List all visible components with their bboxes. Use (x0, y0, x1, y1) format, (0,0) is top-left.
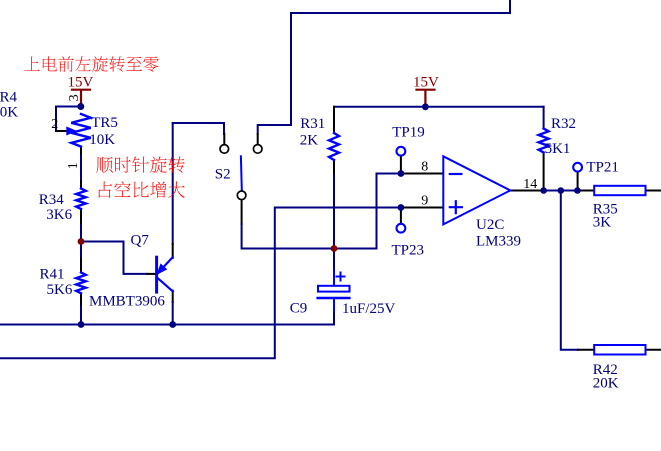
svg-text:TR4: TR4 (0, 90, 17, 106)
testpoint TP19 (397, 147, 406, 156)
resistor R41 (76, 273, 86, 294)
TR5 wiper wire (56, 107, 81, 132)
capacitor C9 plates (318, 286, 350, 292)
S2 pole contact (237, 191, 246, 200)
Q7 emitter with arrow (158, 258, 173, 274)
wire to pin 9 (275, 207, 410, 209)
svg-text:3: 3 (67, 94, 82, 101)
C9 plus sign (337, 273, 345, 281)
power +15V (left) (72, 89, 90, 91)
transistor Q7 base bar (155, 257, 158, 292)
TP19 lead (400, 157, 402, 174)
R42 left lead (578, 349, 594, 351)
op-amp minus (450, 173, 462, 175)
svg-text:10K: 10K (0, 105, 18, 121)
testpoint TP23 (397, 224, 406, 233)
svg-text:20K: 20K (593, 375, 619, 391)
switch S2 arm (240, 156, 243, 190)
C9 top lead (333, 249, 335, 271)
note: clockwise rotation (96, 157, 113, 173)
op-amp output pin 14 (510, 190, 543, 192)
wire 15V rail (334, 106, 544, 108)
wire output to R42 (561, 191, 578, 350)
resistor R35 body (594, 186, 645, 195)
potentiometer TR5 (71, 114, 90, 147)
S2 right contact (253, 145, 262, 154)
wire S2 right contact lead (257, 134, 259, 144)
op-amp U2C triangle (443, 156, 510, 224)
svg-text:15V: 15V (413, 75, 439, 91)
R32 bottom lead (543, 153, 545, 191)
svg-text:U2C: U2C (476, 217, 504, 233)
R42 right lead (646, 349, 661, 351)
wire to Q7 emitter (172, 123, 174, 244)
power +15V (middle) (417, 89, 435, 91)
C9 bottom lead (333, 299, 335, 310)
junction Q7 collector (169, 321, 176, 328)
resistor R31 (329, 133, 339, 160)
TP23 lead (400, 208, 402, 224)
svg-text:TP21: TP21 (586, 159, 619, 175)
svg-text:8: 8 (421, 160, 428, 175)
note: duty cycle increases (99, 182, 113, 198)
R31 bottom lead (333, 160, 335, 175)
svg-text:2: 2 (51, 117, 58, 132)
svg-text:LM339: LM339 (476, 233, 521, 249)
svg-text:2K: 2K (300, 133, 319, 149)
Q7 collector lead (172, 291, 174, 302)
wire top from off-page (258, 0, 510, 134)
junction R41 bottom (78, 321, 85, 328)
svg-text:MMBT3906: MMBT3906 (89, 293, 165, 309)
R32 top lead (543, 107, 545, 129)
junction TR5 top (77, 103, 84, 110)
svg-text:TR5: TR5 (91, 115, 118, 131)
R35 right lead (646, 190, 661, 192)
svg-text:5K6: 5K6 (47, 282, 73, 298)
junction TP23 (398, 204, 405, 211)
TP21 lead (577, 173, 579, 191)
svg-text:R41: R41 (40, 266, 65, 282)
wire S2 left branch (173, 123, 224, 134)
junction C9/R31 (331, 245, 338, 252)
R41 top lead (80, 242, 82, 260)
junction 15V rail (422, 103, 429, 110)
op-amp plus (450, 201, 462, 213)
svg-text:TP19: TP19 (392, 124, 425, 140)
S2 left contact (220, 145, 229, 154)
note: rotate left to zero before power-on (24, 56, 39, 70)
wire S2 left contact lead (223, 134, 225, 144)
junction output b (558, 187, 565, 194)
resistor R42 body (594, 345, 645, 355)
svg-text:3K: 3K (593, 215, 612, 231)
svg-text:5K1: 5K1 (545, 141, 571, 157)
svg-text:15V: 15V (68, 75, 94, 91)
wire R31 to junction (333, 175, 335, 248)
svg-text:9: 9 (421, 194, 428, 209)
wire S2 pole to comparator (242, 174, 410, 249)
wire inverting net vertical (0, 208, 275, 359)
resistor R32 (539, 129, 549, 153)
junction TP19 (398, 170, 405, 177)
TR5 wiper arrow (67, 127, 76, 135)
svg-text:Q7: Q7 (131, 233, 150, 249)
S2 pole lead (241, 201, 243, 225)
wire Q7 base net (81, 242, 148, 274)
svg-text:1: 1 (66, 162, 81, 169)
svg-text:TP23: TP23 (392, 243, 425, 259)
svg-text:1uF/25V: 1uF/25V (342, 301, 396, 317)
svg-text:R32: R32 (551, 116, 576, 132)
testpoint TP21 (573, 163, 582, 172)
junction output c (574, 187, 581, 194)
R34 bottom lead (80, 209, 82, 225)
wire output net (544, 190, 578, 192)
resistor R34 (76, 189, 86, 210)
R31 top lead (333, 107, 335, 131)
pin 9 lead (403, 207, 443, 209)
Q7 collector (157, 278, 173, 292)
TR5 bottom lead / pin 1 (80, 147, 82, 156)
R41 bottom lead (80, 293, 82, 307)
Q7 base lead (148, 273, 156, 275)
junction R34/R41 (78, 238, 85, 245)
pin 8 lead (403, 173, 443, 175)
svg-text:S2: S2 (215, 167, 231, 183)
svg-text:14: 14 (523, 177, 537, 192)
svg-text:10K: 10K (89, 132, 115, 148)
svg-text:3K6: 3K6 (46, 207, 72, 223)
svg-text:R31: R31 (300, 116, 325, 132)
svg-text:C9: C9 (290, 301, 308, 317)
junction output a (540, 187, 547, 194)
R35 left lead (578, 190, 594, 192)
svg-text:R34: R34 (39, 192, 65, 208)
wire bottom ground net (0, 310, 334, 325)
